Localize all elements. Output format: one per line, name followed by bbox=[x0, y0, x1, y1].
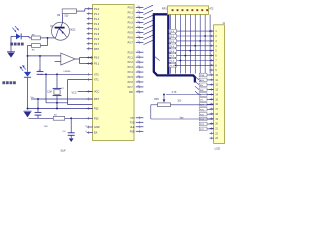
bus P0 data (thick) bbox=[154, 13, 195, 82]
wire VCC to U1 pin bbox=[78, 91, 93, 93]
bus entry P3 serial bbox=[155, 56, 160, 60]
svg-text:P0.2: P0.2 bbox=[128, 17, 134, 20]
svg-text:P0.3: P0.3 bbox=[170, 46, 175, 48]
svg-text:P0.7: P0.7 bbox=[128, 42, 134, 45]
label D1 (IR receive) bbox=[10, 43, 23, 46]
svg-text:P0.5: P0.5 bbox=[128, 32, 134, 35]
transistor Q1 bbox=[50, 22, 76, 40]
wire XTAL2 to U1 bbox=[68, 80, 93, 105]
svg-text:34: 34 bbox=[137, 31, 139, 33]
svg-text:EA: EA bbox=[94, 132, 98, 135]
wire pot left to bottom rail bbox=[151, 105, 158, 119]
potentiometer RP2 bbox=[154, 95, 182, 107]
junction RST/C2 bbox=[37, 98, 39, 100]
svg-text:P2.3: P2.3 bbox=[128, 66, 134, 69]
svg-text:19: 19 bbox=[85, 131, 87, 133]
svg-text:27: 27 bbox=[137, 80, 139, 82]
wire reset lower rail bbox=[29, 117, 93, 119]
svg-text:PSE: PSE bbox=[130, 130, 135, 133]
net labels P0.0-P0.7 bbox=[169, 29, 177, 67]
svg-text:P0.1: P0.1 bbox=[128, 12, 134, 15]
junction pot wiper bbox=[163, 94, 165, 96]
capacitor C3 bbox=[63, 118, 75, 138]
svg-text:29: 29 bbox=[137, 90, 139, 92]
wire C2 branch bbox=[37, 99, 39, 109]
svg-text:P1.5: P1.5 bbox=[94, 33, 100, 36]
svg-text:38: 38 bbox=[137, 11, 139, 13]
wire bottom rail to LCD bbox=[151, 118, 214, 120]
wire D1 anode to ground bbox=[11, 36, 16, 51]
svg-text:ALE: ALE bbox=[130, 126, 135, 129]
U1 right pins P2.0-P2.7/RD bbox=[128, 51, 144, 94]
op-amp U2 bbox=[61, 53, 75, 73]
IR LED D2 (emitter) bbox=[19, 65, 31, 78]
svg-text:9: 9 bbox=[89, 47, 90, 49]
svg-text:RD: RD bbox=[129, 91, 133, 94]
svg-text:P2.7: P2.7 bbox=[128, 86, 134, 89]
net labels control lines bbox=[199, 73, 207, 131]
svg-text:P2.0: P2.0 bbox=[128, 51, 134, 54]
svg-text:P0.0: P0.0 bbox=[170, 31, 175, 33]
svg-text:ALE: ALE bbox=[200, 79, 205, 82]
svg-text:PSE: PSE bbox=[200, 75, 205, 77]
svg-text:P32: P32 bbox=[94, 108, 99, 111]
control wires to LCD bbox=[207, 75, 214, 129]
svg-text:XT1: XT1 bbox=[94, 79, 99, 82]
junction C1/crystal bbox=[56, 73, 58, 75]
junction rail/LED branch bbox=[27, 55, 29, 57]
svg-text:XT2: XT2 bbox=[94, 73, 99, 76]
capacitor C2 bbox=[35, 109, 42, 119]
svg-text:LM358: LM358 bbox=[64, 71, 71, 73]
svg-text:P2.1: P2.1 bbox=[128, 56, 134, 59]
svg-text:1: 1 bbox=[89, 7, 90, 9]
junction node A bbox=[47, 37, 49, 39]
svg-text:472: 472 bbox=[209, 8, 214, 11]
svg-text:P0.3: P0.3 bbox=[128, 22, 134, 25]
junction dots pull-up/data bbox=[175, 30, 211, 66]
svg-text:TXD: TXD bbox=[130, 121, 135, 124]
wire op-amp output to U1 pins bbox=[75, 57, 92, 65]
svg-text:P0.4: P0.4 bbox=[128, 27, 134, 30]
junction R2/C3 bbox=[70, 117, 72, 119]
junction crystal node bbox=[56, 108, 58, 110]
svg-text:28: 28 bbox=[137, 85, 139, 87]
svg-text:P2.2: P2.2 bbox=[128, 61, 134, 64]
svg-text:P1.4: P1.4 bbox=[94, 28, 100, 31]
wire reset node rail bbox=[28, 108, 93, 110]
U1 left pins P3.0 P3.1 bbox=[87, 56, 100, 66]
power ground arrow bbox=[69, 138, 74, 142]
svg-text:P0.2: P0.2 bbox=[170, 41, 175, 43]
svg-text:P3.1: P3.1 bbox=[94, 63, 100, 66]
label D2 (IR transmit) bbox=[2, 81, 15, 84]
svg-text:P1.0: P1.0 bbox=[94, 8, 100, 11]
svg-text:VCC: VCC bbox=[94, 91, 99, 94]
svg-text:24: 24 bbox=[137, 66, 139, 68]
IC U1 AT89C51 bbox=[93, 5, 135, 141]
svg-text:P3.0: P3.0 bbox=[94, 57, 100, 60]
wire R1 to U1 pin P1.0 bbox=[77, 9, 93, 11]
svg-text:P2.5: P2.5 bbox=[128, 76, 134, 79]
U1 left pins XTAL2 XTAL1 bbox=[88, 73, 99, 82]
svg-text:22: 22 bbox=[137, 56, 139, 58]
resistor R4 bbox=[32, 44, 41, 52]
svg-text:P1.1: P1.1 bbox=[94, 13, 100, 16]
svg-text:23: 23 bbox=[137, 61, 139, 63]
svg-text:RP1: RP1 bbox=[162, 8, 167, 11]
junction crystal/loop wire bbox=[56, 102, 58, 104]
resistor R3 bbox=[32, 34, 41, 39]
wire D1 cathode to R3 bbox=[22, 36, 32, 38]
LCD connector J1 bbox=[214, 22, 226, 144]
junction C1/left leg bbox=[45, 73, 47, 75]
svg-text:32: 32 bbox=[137, 41, 139, 43]
resistor R1 bbox=[57, 9, 76, 18]
wire R4 left lead down to op-amp rail bbox=[28, 46, 32, 56]
wire op-amp IN- stub bbox=[55, 60, 61, 62]
svg-text:7: 7 bbox=[89, 37, 90, 39]
U1 right pins P0.0-P0.7 bbox=[128, 6, 144, 45]
svg-text:P0.5: P0.5 bbox=[170, 56, 175, 58]
wire XTAL1 rail bbox=[40, 73, 93, 75]
ground bbox=[24, 111, 32, 117]
junction rail/C1 bbox=[39, 55, 41, 57]
svg-text:6: 6 bbox=[89, 32, 90, 34]
wire Q1 collector to R1 bbox=[61, 13, 63, 26]
wire R3 to node A bbox=[40, 37, 55, 39]
resistor R2 bbox=[44, 115, 65, 128]
svg-text:39: 39 bbox=[137, 6, 139, 8]
svg-text:5: 5 bbox=[89, 27, 90, 29]
svg-text:LCD: LCD bbox=[215, 146, 221, 150]
svg-text:36: 36 bbox=[137, 21, 139, 23]
svg-text:35: 35 bbox=[137, 26, 139, 28]
svg-text:VCC: VCC bbox=[72, 91, 77, 94]
capacitor C1 bbox=[37, 56, 44, 74]
svg-text:26: 26 bbox=[137, 76, 139, 78]
U1 left pins P1.0-P1.7/RST bbox=[87, 7, 100, 51]
svg-text:12M: 12M bbox=[47, 92, 52, 94]
svg-text:33: 33 bbox=[137, 36, 139, 38]
svg-text:P1.7: P1.7 bbox=[94, 43, 100, 46]
svg-text:RST: RST bbox=[94, 98, 99, 101]
svg-text:31: 31 bbox=[85, 126, 87, 128]
ground bbox=[7, 52, 15, 58]
crystal Y1 bbox=[47, 74, 64, 108]
svg-text:RS: RS bbox=[200, 85, 204, 87]
op-amp rail wire bbox=[28, 55, 61, 57]
J1 pins 1-23 bbox=[210, 30, 219, 140]
svg-text:9013: 9013 bbox=[70, 29, 76, 31]
svg-text:P0.4: P0.4 bbox=[170, 51, 175, 53]
svg-text:10K: 10K bbox=[44, 126, 48, 128]
RP1 pin wires (pull-up columns) bbox=[171, 15, 211, 74]
photodiode D1 (IR receiver) bbox=[12, 26, 21, 40]
svg-text:P2.6: P2.6 bbox=[128, 81, 134, 84]
bus entries to control lines bbox=[195, 77, 199, 95]
svg-text:4.7K: 4.7K bbox=[172, 91, 177, 94]
svg-text:XT2: XT2 bbox=[130, 117, 135, 120]
svg-text:P1.3: P1.3 bbox=[94, 23, 100, 26]
wire LED branch vertical bbox=[27, 56, 29, 109]
svg-text:3: 3 bbox=[89, 17, 90, 19]
wire pot right to LCD V0 bbox=[171, 104, 214, 106]
svg-text:P0.6: P0.6 bbox=[128, 37, 134, 40]
svg-text:P1.6: P1.6 bbox=[94, 38, 100, 41]
svg-text:P2.4: P2.4 bbox=[128, 71, 134, 74]
bus entries P0.0-P0.7 bbox=[143, 5, 153, 44]
svg-text:37: 37 bbox=[137, 16, 139, 18]
resistor network RP1 bbox=[162, 6, 214, 15]
svg-text:P0.0: P0.0 bbox=[128, 7, 134, 10]
svg-text:RP2: RP2 bbox=[154, 99, 159, 101]
svg-text:21: 21 bbox=[137, 51, 139, 53]
svg-text:RST: RST bbox=[94, 48, 99, 51]
svg-text:4: 4 bbox=[89, 22, 90, 24]
svg-text:P0.6: P0.6 bbox=[170, 61, 175, 63]
svg-text:GND: GND bbox=[94, 126, 100, 129]
junction LED/ground node bbox=[27, 108, 29, 110]
svg-text:2: 2 bbox=[89, 12, 90, 14]
junction C2 node bbox=[37, 108, 39, 110]
svg-text:P0.1: P0.1 bbox=[170, 36, 175, 38]
svg-text:P0.7: P0.7 bbox=[170, 66, 175, 68]
wire crystal left leg bbox=[46, 74, 68, 103]
svg-text:VO: VO bbox=[200, 100, 203, 102]
data wires to LCD bbox=[177, 31, 214, 65]
svg-text:25: 25 bbox=[137, 71, 139, 73]
U1 left pins VCC/RST/P3x/EA bbox=[85, 90, 100, 135]
svg-text:8: 8 bbox=[89, 42, 90, 44]
wire RST line bbox=[31, 98, 93, 100]
U1 right pins ALE/PSEN group bbox=[130, 116, 144, 133]
wire V0 top bbox=[166, 94, 214, 96]
wire node A down to R4 bbox=[40, 38, 47, 46]
svg-text:P1.2: P1.2 bbox=[94, 18, 100, 21]
svg-text:10uF: 10uF bbox=[60, 150, 66, 152]
svg-text:P33: P33 bbox=[94, 117, 99, 120]
